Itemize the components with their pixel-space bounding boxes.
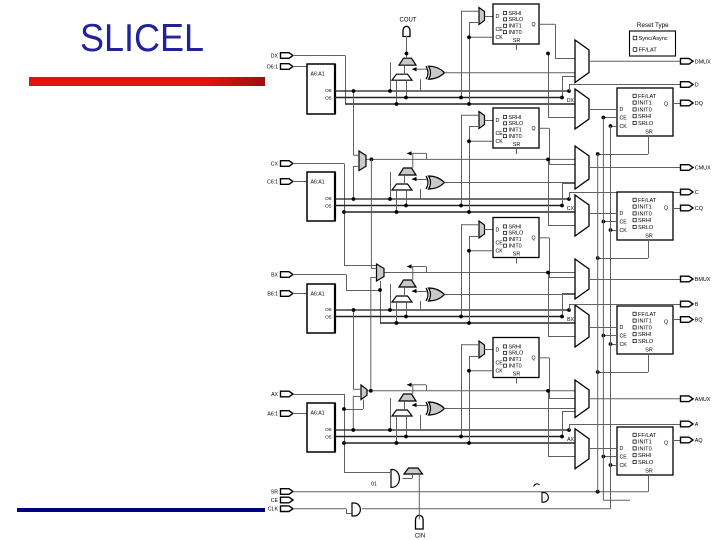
wire A5FF Q to OUTMUX [539, 357, 549, 359]
wire XOR D input arrow [412, 68, 427, 70]
svg-text:Q: Q [532, 356, 536, 362]
wire DFF Q to DQ pin [673, 103, 680, 105]
XORCY gate C [429, 176, 445, 189]
mux CFFMUX [575, 195, 589, 236]
svg-text:SRHI: SRHI [509, 344, 522, 350]
svg-text:A6:A1: A6:A1 [311, 411, 325, 417]
clock buffer [346, 509, 348, 513]
wire F7BMUX inputs [353, 91, 355, 155]
svg-text:D: D [620, 107, 624, 113]
svg-text:D: D [496, 348, 500, 354]
svg-text:D6:1: D6:1 [267, 65, 278, 71]
wire C5FF Q to OUTMUX [539, 127, 549, 129]
input pin DX [281, 53, 294, 59]
svg-text:CK: CK [620, 463, 628, 469]
wire carry top link C [412, 153, 414, 168]
wire rail to BX [469, 236, 471, 323]
input pin AX [281, 391, 294, 397]
mux F7AMUX [361, 385, 367, 400]
wire XOR A input arrow [412, 405, 427, 407]
svg-text:CK: CK [496, 249, 504, 255]
wire BX line [380, 322, 575, 324]
wire carry verticals C [390, 172, 392, 199]
wire CFF CK stub [611, 230, 618, 232]
wire BFF CE stub [603, 335, 617, 337]
wire rail to CX [469, 127, 471, 213]
svg-text:O6: O6 [325, 427, 332, 433]
wire O6 D to output pin [567, 89, 571, 93]
svg-text:INIT0: INIT0 [638, 446, 652, 452]
carry MUXCY C lower [392, 184, 412, 190]
svg-text:Q: Q [532, 236, 536, 242]
wire CIN up [418, 474, 420, 520]
svg-text:COUT: COUT [400, 18, 417, 24]
svg-text:CLK: CLK [268, 507, 279, 513]
mux BFFMUX [575, 305, 589, 347]
wire XOR C output [445, 182, 576, 184]
wire BX from pin [293, 274, 346, 276]
svg-text:INIT1: INIT1 [509, 128, 522, 134]
wire XOR B input arrow [412, 291, 427, 293]
XORCY gate B [429, 288, 445, 301]
output pin DMUX [681, 58, 694, 64]
COUT pin [403, 26, 410, 36]
wire O5 A [335, 436, 562, 438]
svg-text:A6:1: A6:1 [267, 412, 278, 418]
input pin CLK [281, 506, 294, 512]
svg-text:Q: Q [664, 206, 668, 212]
svg-text:O6: O6 [325, 307, 332, 313]
wire CX to F8MUX input [344, 265, 377, 267]
svg-text:CE: CE [620, 455, 628, 461]
svg-text:CK: CK [620, 342, 628, 348]
LUT A (A6:A1) [307, 403, 335, 452]
wire BX branch to F8MUX select [346, 290, 380, 292]
wire CFF Q to CQ pin [673, 208, 680, 210]
svg-text:A: A [695, 422, 699, 428]
wire F7AMUX inputs [353, 310, 355, 389]
svg-text:INIT0: INIT0 [509, 134, 522, 140]
wire B5FF Q to OUTMUX [539, 237, 549, 239]
wire rail to DX [469, 23, 471, 105]
wire DFF SR down [648, 136, 650, 154]
svg-text:C: C [695, 190, 699, 196]
wire D5FF D input [485, 16, 494, 18]
svg-text:Sync/Async: Sync/Async [639, 36, 668, 42]
wire bus B6:1 to LUT [293, 293, 307, 295]
svg-text:INIT0: INIT0 [509, 364, 522, 370]
wire DX from pin [293, 55, 345, 57]
wire D5FF SR stub [516, 44, 518, 50]
svg-text:INIT1: INIT1 [509, 237, 522, 243]
flip-flop C5FF [493, 108, 539, 148]
svg-text:01: 01 [371, 482, 377, 488]
flip-flop DFF (FF/LAT) [617, 88, 673, 136]
output pin AMUX [681, 396, 694, 402]
wire O5 A to OUTMUX [562, 412, 564, 437]
svg-text:SRLO: SRLO [509, 17, 524, 23]
wire XOR A output [445, 408, 576, 410]
wire O6 D [335, 90, 569, 92]
wire carry verticals A [390, 398, 392, 430]
mux AOUTMUX [575, 380, 589, 418]
wire carry verticals D [390, 62, 392, 91]
output pin CQ [681, 205, 694, 211]
wire carry verticals B [390, 284, 392, 310]
wire CX line [344, 211, 575, 213]
wire O6 C [335, 198, 569, 200]
svg-text:SR: SR [513, 38, 521, 44]
wire C5FF mux inputs [461, 114, 479, 116]
carry MUXCY B [399, 280, 416, 287]
svg-text:D: D [496, 228, 500, 234]
wire C5FF CK stub [469, 140, 493, 142]
CIN pin [416, 515, 424, 529]
wire O5 C [335, 205, 562, 207]
output pin C [681, 189, 694, 195]
wire CLK line [293, 508, 346, 510]
svg-text:CQ: CQ [695, 206, 703, 212]
svg-text:SR: SR [271, 490, 278, 496]
wire CLK to CK rail [362, 508, 611, 510]
svg-text:CK: CK [496, 369, 504, 375]
wire AX line [344, 442, 575, 444]
wire rail to O5 C [461, 115, 463, 205]
svg-text:CE: CE [271, 498, 279, 504]
flip-flop B5FF [493, 218, 539, 258]
svg-text:CK: CK [620, 124, 628, 130]
wire aux B (mux out to OUTMUX) [384, 272, 575, 274]
flip-flop CFF (FF/LAT) [617, 192, 673, 240]
svg-text:DX: DX [567, 98, 575, 104]
flip-flop D5FF [493, 4, 539, 44]
wire B5FF mux inputs [461, 224, 479, 226]
wire O5 C to OUTMUX [562, 183, 564, 206]
svg-text:D: D [496, 14, 500, 20]
wire CK vertical rail [610, 126, 612, 509]
svg-text:FF/LAT: FF/LAT [638, 94, 657, 100]
svg-text:Q: Q [532, 22, 536, 28]
svg-text:INIT0: INIT0 [638, 325, 652, 331]
wire O5 D [335, 97, 562, 99]
input pin CX [281, 161, 294, 167]
wire SR rail [293, 491, 648, 493]
wire D5FF CK stub [469, 36, 493, 38]
wire BFF D input [589, 327, 617, 329]
wire D5FF Q to OUTMUX [539, 23, 555, 25]
svg-text:INIT1: INIT1 [638, 319, 652, 325]
wire O6 B to output pin [567, 308, 571, 312]
wire AFF CE stub [603, 456, 617, 458]
svg-text:CE: CE [496, 361, 504, 367]
svg-text:SR: SR [513, 142, 521, 148]
wire A5FF D input [485, 349, 494, 351]
wire CX from pin [293, 163, 344, 165]
svg-text:DX: DX [271, 54, 279, 60]
svg-text:B: B [695, 302, 699, 308]
svg-text:Reset Type: Reset Type [637, 22, 669, 29]
wire A5FF mux inputs [461, 344, 479, 346]
svg-text:INIT0: INIT0 [638, 107, 652, 113]
wire O5 B to OUTMUX [562, 293, 564, 317]
svg-text:CX: CX [271, 162, 279, 168]
wire CFF D input [589, 213, 617, 215]
input pin BX [281, 272, 294, 278]
wire aux C (mux out to OUTMUX) [366, 158, 575, 160]
mux C5FFMUX [479, 112, 485, 129]
svg-text:INIT1: INIT1 [638, 205, 652, 211]
wire AFF SR down [648, 475, 650, 492]
output pin BQ [681, 317, 694, 323]
svg-text:INIT1: INIT1 [638, 101, 652, 107]
wire AFF Q to AQ pin [673, 440, 680, 442]
wire BOUTMUX out [589, 279, 680, 281]
red divider bar [29, 77, 265, 86]
output pin BMUX [681, 276, 694, 282]
svg-text:CK: CK [620, 228, 628, 234]
wire COUTMUX out [589, 167, 680, 169]
wire CYINIT out [403, 478, 413, 480]
carry MUXCY C [399, 168, 416, 175]
svg-text:D: D [695, 83, 699, 89]
svg-text:CE: CE [620, 334, 628, 340]
wire CE rail tail [603, 499, 630, 501]
wire BFF SR down [648, 354, 650, 372]
svg-text:A6:A1: A6:A1 [311, 72, 325, 78]
svg-text:D: D [620, 446, 624, 452]
svg-text:INIT0: INIT0 [638, 211, 652, 217]
wire AX to CYINIT [344, 472, 391, 474]
svg-text:DMUX: DMUX [695, 59, 711, 65]
mux F8MUX [377, 264, 385, 281]
svg-text:SRLO: SRLO [638, 460, 654, 466]
wire AX branch to F7AMUX select [344, 409, 363, 411]
svg-text:CE: CE [496, 241, 504, 247]
svg-text:AMUX: AMUX [695, 397, 711, 403]
svg-text:CK: CK [496, 139, 504, 145]
svg-text:O5: O5 [325, 95, 332, 101]
svg-text:BQ: BQ [695, 318, 703, 324]
svg-text:SRLO: SRLO [509, 121, 524, 127]
svg-text:SRHI: SRHI [509, 224, 522, 230]
wire B5FF D input [485, 229, 494, 231]
title SLICEL [80, 17, 204, 61]
svg-text:CX: CX [567, 206, 575, 212]
wire B5FF SR stub [516, 258, 518, 264]
mux CYINIT 01 mux [391, 470, 399, 488]
inverter option on SR [542, 493, 548, 503]
svg-text:INIT0: INIT0 [509, 30, 522, 36]
mux A5FFMUX [479, 341, 485, 358]
carry MUXCY D [399, 58, 416, 65]
wire carry top link A [412, 385, 414, 394]
input pin B6:1 [281, 291, 294, 297]
svg-text:FF/LAT: FF/LAT [639, 48, 658, 54]
wire AFF D input [589, 448, 617, 450]
carry MUXCY B lower [392, 296, 412, 302]
wire B FFMUX feed [548, 273, 550, 337]
wire DFF CE stub [603, 117, 617, 119]
wire DOUTMUX out [589, 60, 680, 62]
input pin CE [281, 497, 294, 503]
flip-flop BFF (FF/LAT) [617, 306, 673, 354]
wire F7BMUX output [370, 158, 374, 162]
wire A5FF CK stub [469, 370, 493, 372]
wire D5FF mux inputs [461, 10, 479, 12]
wire SR vertical rail [597, 154, 599, 492]
svg-text:SRHI: SRHI [638, 218, 652, 224]
svg-text:FF/LAT: FF/LAT [638, 312, 657, 318]
svg-text:D: D [496, 118, 500, 124]
wire C FFMUX feed [548, 159, 550, 225]
wire XOR D output [445, 72, 576, 74]
wire rail to O5 D [461, 11, 463, 97]
wire O6 A [335, 429, 569, 431]
output pin CMUX [681, 165, 694, 171]
svg-text:INIT1: INIT1 [638, 440, 652, 446]
svg-text:AQ: AQ [695, 438, 703, 444]
mux B5FFMUX [479, 221, 485, 238]
wire XOR B output [445, 294, 576, 296]
wire O6 B [335, 309, 569, 311]
svg-text:CE: CE [496, 131, 504, 137]
svg-text:A6:A1: A6:A1 [311, 292, 325, 298]
wire A5FF SR stub [516, 378, 518, 384]
svg-text:SRLO: SRLO [638, 339, 654, 345]
svg-text:SR: SR [513, 371, 521, 377]
mux COUTMUX [575, 146, 589, 189]
wire carry top link B [412, 267, 414, 281]
wire O5 D to OUTMUX [562, 77, 564, 98]
svg-text:SRHI: SRHI [638, 114, 652, 120]
svg-text:Q: Q [664, 320, 668, 326]
svg-text:SR: SR [513, 251, 521, 257]
wire F8MUX inputs vertical [370, 159, 372, 268]
output pin B [681, 301, 694, 307]
mux DFFMUX [575, 89, 589, 129]
wire D FFMUX feed [548, 54, 550, 118]
mux DOUTMUX [575, 40, 589, 83]
svg-text:SRLO: SRLO [638, 121, 654, 127]
svg-text:BMUX: BMUX [695, 277, 711, 283]
svg-text:SRHI: SRHI [509, 11, 522, 17]
output pin AQ [681, 437, 694, 443]
wire bus A6:1 to LUT [293, 413, 307, 415]
svg-text:Q: Q [532, 126, 536, 132]
svg-text:CMUX: CMUX [695, 166, 711, 172]
svg-text:SRLO: SRLO [638, 225, 654, 231]
svg-text:CIN: CIN [415, 534, 425, 540]
LUT D (A6:A1) [307, 64, 335, 114]
svg-text:AX: AX [271, 392, 278, 398]
mux CYINIT trapezoid [404, 468, 423, 474]
wire A FFMUX feed [548, 391, 550, 456]
wire rail to AX [469, 356, 471, 443]
svg-text:O6: O6 [325, 196, 332, 202]
svg-text:Q: Q [664, 102, 668, 108]
input pin D6:1 [281, 64, 294, 70]
mux AFFMUX [575, 429, 589, 469]
svg-text:SRHI: SRHI [509, 115, 522, 121]
svg-text:Q: Q [664, 441, 668, 447]
mux F7BMUX [359, 151, 366, 171]
output pin D [681, 82, 694, 88]
wire DFF D input [589, 109, 617, 111]
wire O5 B [335, 316, 562, 318]
wire bus C6:1 to LUT [293, 181, 307, 183]
svg-text:CE: CE [620, 220, 628, 226]
wire aux A (mux out to OUTMUX) [367, 390, 576, 392]
svg-text:FF/LAT: FF/LAT [638, 198, 657, 204]
svg-text:SR: SR [645, 348, 653, 354]
carry MUXCY A lower [392, 410, 412, 416]
wire DFF CK stub [611, 126, 618, 128]
LUT B (A6:A1) [307, 284, 335, 333]
svg-text:CE: CE [496, 27, 504, 33]
svg-text:CE: CE [620, 116, 628, 122]
svg-text:INIT1: INIT1 [509, 24, 522, 30]
wire C5FF D input [485, 120, 494, 122]
svg-text:B6:1: B6:1 [267, 292, 278, 298]
svg-text:SR: SR [645, 234, 653, 240]
output pin DQ [681, 100, 694, 106]
svg-text:SR: SR [645, 469, 653, 475]
svg-text:SRLO: SRLO [509, 351, 524, 357]
flip-flop AFF (FF/LAT) [617, 427, 673, 475]
svg-text:BX: BX [567, 317, 574, 323]
wire C5FF SR stub [516, 148, 518, 154]
XORCY gate D [429, 66, 445, 79]
svg-text:FF/LAT: FF/LAT [638, 433, 657, 439]
svg-text:CK: CK [496, 35, 504, 41]
wire AOUTMUX out [589, 398, 680, 400]
wire rail to O5 A [461, 345, 463, 437]
wire BFF Q to BQ pin [673, 319, 680, 321]
svg-text:O5: O5 [325, 314, 332, 320]
svg-text:INIT0: INIT0 [509, 244, 522, 250]
wire CE vertical rail [602, 118, 604, 501]
svg-text:A6:A1: A6:A1 [311, 180, 325, 186]
XORCY gate A [429, 402, 445, 415]
svg-text:O5: O5 [325, 434, 332, 440]
svg-text:D: D [620, 325, 624, 331]
wire COUT to carry chain [406, 36, 408, 58]
svg-text:INIT1: INIT1 [509, 357, 522, 363]
svg-text:D: D [620, 211, 624, 217]
wire DX line [345, 103, 575, 105]
carry MUXCY A [399, 394, 416, 401]
flip-flop A5FF [493, 338, 539, 378]
wire O6 C to output pin [567, 197, 571, 201]
svg-text:SRLO: SRLO [509, 231, 524, 237]
wire BFF CK stub [611, 344, 618, 346]
input pin A6:1 [281, 411, 294, 417]
svg-text:C6:1: C6:1 [267, 180, 278, 186]
svg-text:AX: AX [567, 437, 574, 443]
svg-text:O5: O5 [325, 203, 332, 209]
wire XOR C input arrow [412, 179, 427, 181]
svg-text:DQ: DQ [695, 101, 703, 107]
svg-text:SRHI: SRHI [638, 453, 652, 459]
svg-text:O6: O6 [325, 88, 332, 94]
wire B5FF CK stub [469, 250, 493, 252]
wire AFF CK stub [611, 465, 618, 467]
mux D5FFMUX [479, 8, 485, 25]
svg-text:SRHI: SRHI [638, 332, 652, 338]
wire rail to O5 B [461, 225, 463, 317]
input pin C6:1 [281, 179, 294, 185]
wire CFF CE stub [603, 221, 617, 223]
